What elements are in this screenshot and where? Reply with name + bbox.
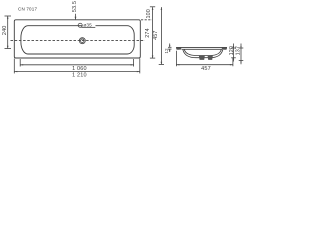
svg-text:137: 137 xyxy=(235,46,241,55)
svg-text:240: 240 xyxy=(2,25,8,35)
svg-text:53.5: 53.5 xyxy=(72,1,78,12)
svg-text:1 060: 1 060 xyxy=(72,66,87,72)
svg-text:CN 7017: CN 7017 xyxy=(18,6,37,11)
svg-text:457: 457 xyxy=(153,30,159,39)
svg-text:100: 100 xyxy=(146,9,152,18)
svg-text:120: 120 xyxy=(229,46,235,55)
svg-text:12: 12 xyxy=(164,48,169,54)
svg-text:274: 274 xyxy=(145,28,151,37)
svg-text:ø35: ø35 xyxy=(83,23,92,28)
svg-text:457: 457 xyxy=(201,66,211,72)
svg-text:1 210: 1 210 xyxy=(72,72,87,78)
